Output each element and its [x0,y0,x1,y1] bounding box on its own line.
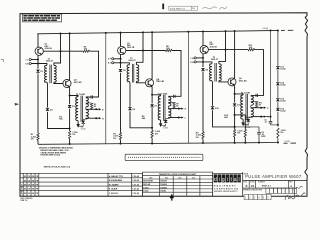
resistor R1 3,300 5% [37,133,39,140]
diode D3 [69,96,71,105]
wire T1 secondary top to bus tap [54,33,61,65]
svg-text:C O R P O R A T I O N: C O R P O R A T I O N [214,187,238,190]
svg-text:W607-0-1: W607-0-1 [262,185,272,187]
wire R2 to -15V bus [69,139,71,145]
node output junction lower [95,117,97,119]
node output junction lower [260,116,262,118]
wire R8 to T4 secondary [168,51,181,97]
node junction input B [37,63,39,65]
wire C4 top link [235,126,260,128]
svg-text:D-003: D-003 [81,128,86,130]
wire Q3 collector to bus [120,33,122,47]
wire T6 output lower [250,116,252,119]
capacitor C1 plates [90,95,92,98]
svg-text:D-662: D-662 [280,101,285,103]
conversion chart header [143,175,213,177]
svg-text:5%: 5% [281,132,284,134]
pencil note scribble [203,7,217,9]
wire D14-D15 [277,86,279,98]
node clamp junction [277,124,279,126]
capacitor C5 .01 MFD [269,120,273,122]
top margin punch mark [162,4,164,10]
svg-text:i: i [219,177,220,183]
wire Q4 collector to bus [151,32,153,79]
capacitor C2 plates [173,95,175,98]
wire Q6 collector to bus [233,31,235,78]
signature table rows [20,177,143,179]
wire T3 primary bottom to D6 [128,82,131,107]
node emitter junction [151,94,153,96]
node bus tap Q2 collector [151,31,153,33]
svg-text:4: 4 [209,80,210,83]
svg-text:68: 68 [259,104,261,106]
wire emitter node to T6 primary [235,94,244,95]
svg-text:D-003: D-003 [163,128,168,130]
terminal output E [99,108,101,110]
wire Q4 emitter down [151,86,153,95]
svg-text:5%: 5% [155,133,158,135]
conversion chart rows [143,181,213,183]
svg-text:A. BAILEY TTE: A. BAILEY TTE [109,175,124,178]
node bus tap Q2 collector [69,32,71,34]
diode D9 [201,68,205,71]
terminal input 8 N [194,61,196,63]
terminal input 1 M [194,57,196,59]
svg-text:R.HISHIKAWA: R.HISHIKAWA [109,179,123,182]
svg-text:6: 6 [76,98,77,100]
svg-text:E Q U I P M E N T: E Q U I P M E N T [214,185,236,187]
svg-text:4: 4 [44,81,45,84]
svg-text:a: a [234,177,237,183]
wire C5 to clamp junction [271,124,278,126]
annotation arrow [170,195,173,200]
wire T5 secondary bottom to Q6 base [219,81,228,82]
wire input B to T5 primary [196,62,212,64]
wire R5 to -15V bus [120,140,122,144]
wire R13 to -15V bus [244,137,246,143]
svg-text:5: 5 [170,98,171,100]
wire Q5 collector to bus [202,32,204,46]
svg-text:W. SMART: W. SMART [109,183,120,186]
svg-text:g: g [222,177,225,183]
svg-text:DRB 110: DRB 110 [21,200,28,202]
conversion chart frame [143,172,213,196]
wire emitter node to T2 primary [70,96,79,97]
node output junction [260,107,262,109]
svg-text:2006-2T: 2006-2T [128,60,136,62]
wire D12 to ground [243,123,248,125]
node base-resistor junction [225,49,227,51]
node junction input B [120,62,122,64]
svg-text:DEC3639B: DEC3639B [143,181,153,183]
svg-text:8 N: 8 N [190,62,194,64]
wire D1 to R1 [37,73,39,133]
resistor R10 1,500 5% [233,129,235,137]
svg-text:l: l [239,177,240,183]
svg-text:3639-1B: 3639-1B [127,47,135,49]
diode D8 [166,118,169,119]
wire R10-R13 link [235,114,246,116]
svg-text:.01: .01 [264,122,267,124]
svg-text:D-662: D-662 [280,69,285,71]
svg-text:D-662: D-662 [280,110,285,112]
svg-text:1: 1 [220,64,221,66]
diode D4 [83,119,86,120]
transistor Q2 [63,79,71,87]
wire T5 primary bottom to D10 [211,81,214,106]
wire input B to T3 primary [114,63,130,65]
svg-text:+10V(A): +10V(A) [262,27,269,30]
wire -15V bottom bus [38,142,279,144]
svg-text:3: 3 [127,65,128,67]
resistor R9 3,300 5% [202,132,204,139]
svg-text:1N645: 1N645 [160,190,165,193]
wire D5 to R5 [120,73,122,133]
title block row line [243,179,307,181]
svg-text:MFD: MFD [261,136,266,138]
node junction input A [120,58,122,60]
wire T1 primary bottom to D2 [46,82,49,107]
svg-text:2006-2T: 2006-2T [46,61,54,63]
wire Q5 base to R12 [208,49,248,51]
svg-text:-15V(B): -15V(B) [284,141,290,143]
svg-text:DEC-4D: DEC-4D [74,81,82,84]
svg-text:J. DOYLE: J. DOYLE [109,193,119,195]
wire T2 output lower [85,117,87,120]
node junction D-branch [234,126,236,128]
wire R12 to T6 secondary [251,50,264,96]
signature table columns [22,173,24,196]
terminal input 1 F [112,58,114,60]
svg-text:NUMBER: NUMBER [258,182,266,184]
wire Q6 emitter down [233,85,235,94]
drawing border frame [20,13,308,196]
svg-text:DEC-4D: DEC-4D [156,80,164,83]
node bus tap [225,30,227,32]
transistor Q3 [118,46,126,54]
diode D10 [211,107,215,110]
node bus tap Q2 collector [234,30,236,32]
transistor Q5 [200,45,208,53]
diode D15 D-662 [276,99,280,102]
wire R14 to -15V bus [277,138,279,143]
node output junction lower [178,117,180,119]
transistor Q1 [35,47,43,55]
wire T2 output upper [85,107,87,109]
top margin file strip box [169,6,198,10]
wire Q5 emitter down [202,54,204,68]
resistor R11 68 [251,100,257,102]
node junction D-branch [151,127,153,129]
wire D9 to R9 [202,72,204,132]
svg-text:3639-1B: 3639-1B [45,48,53,50]
terminal output L [181,116,183,118]
node junction input A [202,57,204,59]
wire D10 to D-branch junction [213,110,235,127]
node emitter junction [234,93,236,95]
diode D7 [151,95,153,104]
wire Q1 collector to bus [37,34,39,47]
diode D11 [234,94,236,103]
wire Q1 emitter down [37,55,39,68]
svg-text:1 M: 1 M [190,58,194,60]
rev boxes [266,188,270,193]
diode D13 D-662 [276,67,280,70]
svg-text:5%: 5% [237,133,240,135]
wire clamp diode column [277,30,279,65]
capacitor C3 plates [255,94,257,97]
node base-resistor junction [60,50,62,52]
diode D6 [128,108,132,111]
svg-text:5%: 5% [72,134,75,136]
contact strip pins [128,156,200,158]
left margin arrow blob [15,103,20,106]
svg-text:8 J: 8 J [108,63,111,65]
terminal output K [181,107,183,109]
wire R1 to -15V bus [37,140,39,144]
copyright notice box [23,14,62,22]
svg-text:DEC-4D: DEC-4D [239,79,247,82]
svg-text:3: 3 [209,64,210,66]
left margin mark [1,60,4,62]
svg-text:5%: 5% [31,139,34,141]
printed circuit rev row line [243,187,295,189]
wire D6 to D-branch junction [130,111,152,128]
diode D2 [46,108,50,111]
svg-text:6: 6 [158,97,159,99]
svg-text:d: d [214,177,217,183]
svg-text:1N3606: 1N3606 [160,187,167,189]
resistor R8 100 [166,49,173,51]
wire Q2 emitter down [68,87,70,96]
wire input A to emitter node [114,58,121,60]
svg-text:DEC-4D: DEC-4D [143,183,151,186]
node emitter junction [69,95,71,97]
svg-text:R. BLAIR: R. BLAIR [109,188,118,191]
ground symbol [77,121,79,124]
wire R4 to T2 secondary [86,51,99,97]
transistor Q6 [228,78,236,86]
svg-text:8 D: 8 D [25,63,29,65]
wire D2 to D-branch junction [48,112,70,129]
wire C5 riser from bus [270,31,272,121]
svg-text:1N3606: 1N3606 [160,184,167,186]
svg-text:SIZE: SIZE [243,182,246,184]
resistor R12 100 [248,48,255,50]
wire emitter node to T4 primary [152,95,161,96]
svg-text:PRINTED CIRCUIT REV.: PRINTED CIRCUIT REV. [243,190,263,192]
svg-text:6: 6 [241,96,242,98]
wire D7 to R6 [151,108,153,130]
wire interstage ground line B [187,32,189,143]
wire T6 output upper [250,105,252,107]
svg-text:DIODES ARE D-664: DIODES ARE D-664 [41,154,61,157]
node junction input B [202,61,204,63]
resistor R4 100 [83,50,90,52]
wire T3 secondary top to bus tap [136,32,143,64]
svg-text:B-DD-W607-0-1: B-DD-W607-0-1 [170,8,186,10]
wire Q2 collector to bus [68,33,70,80]
node bus tap [60,32,62,34]
wire D8 to ground [161,124,166,126]
svg-text:7-23-63: 7-23-63 [132,193,140,195]
wire D13-D14 [277,70,279,82]
node junction D-branch [69,128,71,130]
svg-text:5: 5 [87,98,88,100]
wire input A to emitter node [196,57,203,59]
svg-text:7-20-63: 7-20-63 [132,176,140,178]
ground symbol [242,119,244,122]
svg-text:68: 68 [94,106,96,108]
capacitor C4 .01 MFD [258,127,260,132]
svg-text:2N3639: 2N3639 [160,181,167,183]
transistor Q4 [145,79,153,87]
wire input A to emitter node [31,59,38,61]
wire T3 secondary bottom to Q4 base [136,82,145,83]
svg-text:5%: 5% [196,137,199,139]
size code number row [248,180,250,188]
resistor R7 68 [168,101,174,103]
svg-text:TRANSISTOR & DIODE CONVERSION: TRANSISTOR & DIODE CONVERSION CHART [159,173,197,176]
node junction input A [37,59,39,61]
resistor R2 1,500 5% [68,131,70,139]
wire Q3 emitter down [120,55,122,69]
wire R10 to -15V bus [234,137,236,143]
wire R6 to -15V bus [151,138,153,144]
node output junction [95,108,97,110]
svg-text:1: 1 [138,65,139,67]
svg-text:1: 1 [55,66,56,68]
diode D16 D-662 [276,108,280,111]
diode D12 [248,117,251,118]
terminal input 1 C [29,58,31,60]
node output junction [178,108,180,110]
wire D16 to clamp junction [277,112,279,127]
svg-text:PULSE AMPLIFIER W607: PULSE AMPLIFIER W607 [245,174,302,179]
svg-text:5: 5 [252,97,253,99]
terminal output R [264,115,266,117]
module contact strip [125,154,203,161]
wire D3 to R2 [69,109,71,131]
corner pencil mark [296,186,303,189]
svg-text:5%: 5% [113,138,116,140]
terminal output P [264,107,266,109]
svg-text:CS: CS [251,185,255,188]
resistor R3 68 [86,102,92,104]
handwritten mark [285,193,305,200]
svg-text:3639-1B: 3639-1B [210,46,218,48]
resistor R13 680 [244,115,246,129]
terminal output H [99,117,101,119]
terminal input 8 D [29,62,31,64]
wire interstage ground line A [105,33,107,144]
svg-text:CODE: CODE [250,182,255,184]
wire stage3 output lower extended [264,116,271,118]
node base-resistor junction [142,50,144,52]
svg-text:D-662: D-662 [143,191,148,193]
terminal input 8 J [112,62,114,64]
svg-text:7-23-63: 7-23-63 [132,189,140,191]
svg-text:2006-2T: 2006-2T [211,59,219,61]
wire T1 secondary bottom to Q2 base [54,82,63,83]
wire Q3 base to R8 [126,50,166,52]
svg-text:UNLESS OTHERWISE INDICATED:: UNLESS OTHERWISE INDICATED: [39,147,74,150]
signature table frame [20,173,143,196]
resistor R14 1,500 5% [277,128,279,138]
svg-text:1 C: 1 C [25,59,29,61]
wire R9 to -15V bus [202,139,204,143]
resistor R6 1,500 5% [151,130,153,138]
diode D1 [36,70,40,73]
svg-text:7-21-63: 7-21-63 [132,184,140,186]
resistor R5 3,300 5% [119,133,121,140]
conversion chart columns [159,176,161,197]
eco strip boxes [244,195,249,200]
wire +10V top bus [37,30,278,33]
ground symbol [160,120,162,123]
logo digital boxes [214,174,217,182]
wire Q1 base to R4 [43,50,83,52]
svg-text:D-662: D-662 [280,85,285,87]
node bus tap [142,31,144,33]
svg-text:4: 4 [127,81,128,84]
svg-text:3: 3 [44,66,45,68]
svg-text:68: 68 [176,105,178,107]
wire input B to T1 primary [31,64,47,66]
diode D14 D-662 [276,83,280,86]
svg-text:PARTS LIST (A-PL-W607-0-0): PARTS LIST (A-PL-W607-0-0) [44,165,71,168]
wire T4 output lower [167,117,169,120]
wire D15-D16 [277,102,279,107]
wire D4 to ground [78,124,83,126]
wire T4 output upper [167,106,169,108]
wire T5 secondary top to bus tap [219,31,226,64]
svg-text:7-20-63: 7-20-63 [132,180,140,182]
svg-text:B: B [246,185,248,188]
wire D11 to R10 [234,107,236,129]
diode D5 [119,69,123,72]
svg-text:i: i [227,177,228,183]
logo divider lines [212,173,214,196]
